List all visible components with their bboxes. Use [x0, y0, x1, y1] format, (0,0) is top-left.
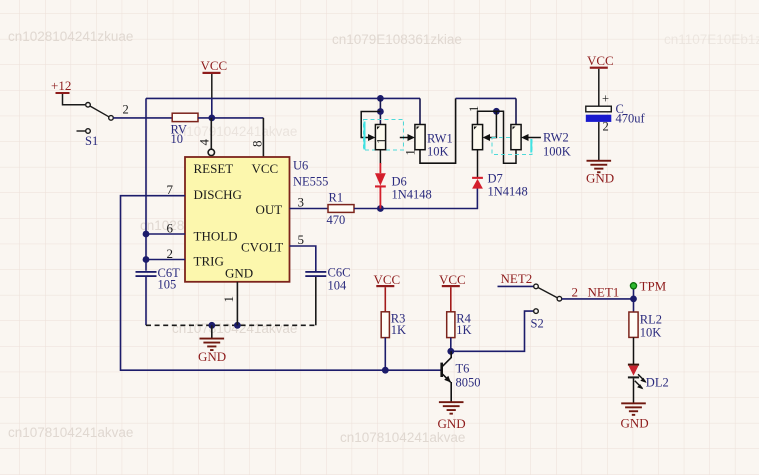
- RW2 wiper arrow 3: [483, 134, 490, 141]
- junction top rail / RW1: [377, 95, 384, 102]
- capacitor C6T: [136, 266, 181, 292]
- svg-text:cn1078104241akvae: cn1078104241akvae: [172, 321, 297, 336]
- svg-text:2: 2: [572, 285, 579, 300]
- svg-text:470: 470: [327, 213, 346, 227]
- power port VCC (top): [201, 58, 228, 98]
- diode D6 (1N4148): [375, 163, 432, 209]
- wire RW1 body1 to D6: [379, 150, 381, 164]
- svg-text:1: 1: [404, 149, 418, 155]
- svg-text:D7: D7: [488, 172, 503, 186]
- svg-text:TRIG: TRIG: [194, 254, 224, 269]
- svg-text:470uf: 470uf: [616, 112, 646, 126]
- resistor R1: [328, 205, 354, 213]
- svg-text:TPM: TPM: [640, 279, 667, 294]
- pin 3 wire OUT: [290, 208, 329, 210]
- junction pin2: [143, 256, 150, 263]
- svg-text:GND: GND: [438, 416, 466, 431]
- svg-text:cn1079E108361zkiae: cn1079E108361zkiae: [332, 32, 462, 47]
- svg-text:T6: T6: [456, 362, 470, 376]
- wire R3 to base rail: [384, 338, 386, 371]
- svg-text:VCC: VCC: [201, 58, 228, 73]
- potentiometer RW1 body 1: [375, 125, 385, 150]
- junction RW2 node: [493, 108, 500, 115]
- svg-text:cn1079104241akvae: cn1079104241akvae: [172, 124, 297, 139]
- RW1 wiper arrow 2: [408, 134, 415, 141]
- svg-text:3: 3: [298, 195, 305, 210]
- svg-text:GND: GND: [586, 171, 614, 186]
- wire RL2 to DL2: [633, 337, 635, 364]
- svg-text:+12: +12: [51, 78, 71, 93]
- ground GND (capacitor C): [586, 160, 614, 186]
- wire RW1 body2 bottom loop to rail B: [420, 98, 456, 163]
- svg-text:+: +: [602, 92, 609, 106]
- svg-text:7: 7: [167, 182, 174, 197]
- svg-text:8: 8: [250, 141, 265, 148]
- svg-text:DL2: DL2: [646, 376, 669, 390]
- power port VCC (R4): [439, 272, 466, 312]
- pin 2 wire TRIG: [146, 259, 185, 261]
- wire S1 to RV: [113, 117, 172, 119]
- RW2 wiper 4 stub: [528, 137, 541, 139]
- svg-text:104: 104: [328, 279, 348, 293]
- RW1 body1 top-left tick: [377, 127, 380, 130]
- junction R1/D6: [377, 205, 384, 212]
- svg-text:R1: R1: [329, 191, 344, 205]
- svg-text:NET1: NET1: [588, 285, 620, 300]
- svg-text:10: 10: [171, 132, 184, 146]
- junction R4/collector/S2: [447, 348, 454, 355]
- svg-text:GND: GND: [621, 416, 649, 431]
- svg-text:DISCHG: DISCHG: [194, 187, 242, 202]
- power port +12: [51, 78, 85, 105]
- LED DL2: [628, 364, 669, 390]
- potentiometer RW2 body 3: [472, 125, 482, 150]
- svg-text:U6: U6: [293, 159, 308, 173]
- junction NET1/TPM/RL2: [630, 296, 637, 303]
- wire R4 to collector junction: [450, 338, 452, 352]
- svg-text:S2: S2: [531, 317, 544, 331]
- svg-text:NET2: NET2: [501, 271, 533, 286]
- svg-text:6: 6: [167, 221, 174, 236]
- pin 4 bubble: [208, 149, 214, 155]
- svg-text:2: 2: [167, 246, 174, 261]
- junction pin6: [143, 231, 150, 238]
- svg-text:cn1078104241akvae: cn1078104241akvae: [340, 430, 465, 445]
- wire C6C to ground rail: [315, 277, 317, 325]
- svg-text:RW2: RW2: [543, 131, 569, 145]
- ground GND (T6): [438, 401, 466, 431]
- RW2 wiper arrow 4: [521, 134, 528, 141]
- selection box RW1 (dashed cyan): [364, 120, 404, 151]
- wire RW2 body3 to D7: [477, 150, 479, 178]
- svg-text:RW1: RW1: [427, 132, 453, 146]
- wire NET2 stub: [498, 285, 534, 287]
- potentiometer RW2 body 4: [511, 125, 521, 150]
- wire top rail corner into RW1 body 2: [419, 98, 421, 124]
- RW2 body4 top-left tick: [513, 127, 516, 130]
- junction RW1 wiper node: [377, 108, 384, 115]
- svg-text:cn1078104241akvae: cn1078104241akvae: [8, 425, 133, 440]
- wire S2 to NET1 node: [562, 298, 634, 300]
- svg-text:4: 4: [197, 139, 212, 146]
- svg-text:RESET: RESET: [194, 161, 234, 176]
- test point TPM: [630, 279, 666, 299]
- svg-text:5: 5: [298, 232, 305, 247]
- pin 5 wire CVOLT: [290, 246, 316, 271]
- svg-text:1K: 1K: [456, 323, 471, 337]
- svg-text:VCC: VCC: [587, 53, 614, 68]
- wire RW2 node to wiper 3: [489, 111, 496, 137]
- resistor RV: [172, 113, 198, 121]
- wire junction to pin4: [210, 118, 212, 149]
- svg-text:VCC: VCC: [252, 161, 279, 176]
- potentiometer RW1 body 2: [415, 125, 425, 150]
- junction R3/base: [382, 367, 389, 374]
- wire RW2 node to body4 bottom loop: [496, 111, 516, 163]
- wire DL2 to GND: [633, 378, 635, 402]
- svg-text:2: 2: [603, 120, 609, 134]
- wire rail B into RW2 body 4: [515, 98, 517, 124]
- ground rail (dashed): [146, 324, 316, 326]
- RW1 wiper 2 stub: [400, 137, 408, 139]
- pin 7 wire DISCHG to left vertical to base rail: [121, 196, 441, 371]
- wire RW1 wiper loop: [361, 112, 380, 138]
- wire RV to junction to pin8 corner: [198, 117, 263, 119]
- RW1 body2 top-left tick: [417, 127, 420, 130]
- svg-text:1N4148: 1N4148: [392, 188, 432, 202]
- RW1 wiper arrow 1: [368, 134, 375, 141]
- resistor RL2: [629, 312, 638, 337]
- capacitor C 470uf: [586, 92, 646, 134]
- svg-text:S1: S1: [85, 134, 98, 148]
- pin 1 wire GND: [236, 282, 238, 326]
- pin 6 wire THOLD: [146, 233, 185, 235]
- power port VCC (capacitor C): [587, 53, 614, 106]
- svg-text:cn1028104241zkuae: cn1028104241zkuae: [8, 29, 133, 44]
- resistor R3: [381, 312, 389, 338]
- svg-text:10K: 10K: [427, 145, 449, 159]
- ground GND (DL2): [621, 402, 649, 430]
- wire C to GND: [598, 122, 600, 160]
- wire VCC to junction: [211, 98, 213, 118]
- svg-text:OUT: OUT: [256, 202, 283, 217]
- diode D7 (1N4148): [472, 172, 528, 199]
- svg-text:D6: D6: [392, 175, 407, 189]
- wire rail to RW1 body1: [379, 98, 381, 124]
- wire node to RL2: [633, 299, 635, 312]
- RW2 body3 top-left tick: [474, 127, 477, 130]
- svg-text:1: 1: [221, 296, 236, 303]
- svg-text:cn1107E10Eb1zk: cn1107E10Eb1zk: [664, 32, 759, 47]
- capacitor C6C: [305, 266, 350, 293]
- wire RW2 node to body3 top: [478, 111, 497, 124]
- svg-text:10K: 10K: [640, 326, 662, 340]
- svg-text:GND: GND: [225, 265, 253, 280]
- ground GND (under chip): [198, 325, 226, 364]
- junction gnd rail / gnd symbol: [208, 322, 215, 329]
- wire R1 to diode junction to D7: [354, 188, 477, 208]
- resistor R4: [447, 312, 455, 338]
- switch S1: [77, 103, 114, 149]
- svg-text:C6C: C6C: [328, 266, 351, 280]
- svg-text:100K: 100K: [543, 145, 571, 159]
- svg-text:NE555: NE555: [293, 175, 328, 189]
- svg-text:VCC: VCC: [374, 272, 401, 287]
- top rail (VCC rail segment A): [146, 97, 420, 99]
- svg-text:8050: 8050: [456, 376, 481, 390]
- svg-text:RL2: RL2: [640, 313, 662, 327]
- svg-text:GND: GND: [198, 349, 226, 364]
- svg-text:1: 1: [375, 138, 389, 144]
- left vertical wire (rail to C6T to ground rail): [145, 98, 147, 325]
- svg-text:CVOLT: CVOLT: [241, 240, 283, 255]
- top rail segment B: [456, 97, 516, 99]
- power port VCC (R3): [374, 272, 401, 312]
- op-amp U6 NE555 body: [185, 157, 290, 282]
- svg-text:2: 2: [123, 103, 129, 117]
- switch S2: [531, 284, 562, 330]
- wire junction to S2: [451, 311, 534, 351]
- svg-text:1K: 1K: [391, 323, 406, 337]
- svg-text:1N4148: 1N4148: [488, 185, 528, 199]
- svg-text:1: 1: [467, 106, 481, 112]
- svg-text:THOLD: THOLD: [194, 229, 238, 244]
- svg-text:VCC: VCC: [439, 272, 466, 287]
- junction RV/VCC: [208, 115, 215, 122]
- transistor T6 (8050): [440, 351, 480, 401]
- selection box RW2 (dashed cyan): [492, 138, 532, 155]
- svg-text:105: 105: [158, 278, 177, 292]
- junction gnd rail / pin1: [234, 322, 241, 329]
